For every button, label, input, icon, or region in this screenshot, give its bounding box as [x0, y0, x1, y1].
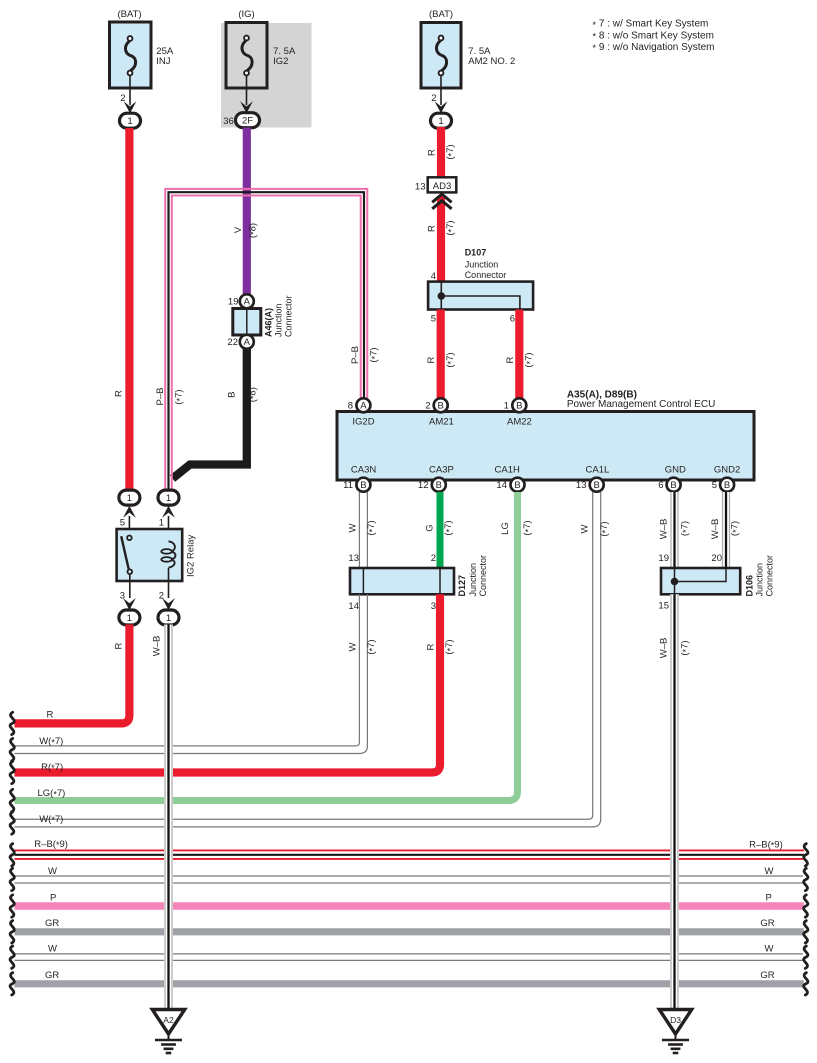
wire W-B from relay pin 2 to ground A2 [164, 625, 173, 1010]
svg-text:W: W [580, 524, 591, 533]
svg-text:5: 5 [712, 480, 717, 491]
svg-text:(*8): (*8) [247, 387, 258, 402]
pin 15 label D106 [658, 601, 669, 612]
svg-text:5: 5 [431, 314, 436, 325]
fuse F2 IG2 label (IG) [238, 9, 254, 20]
wire R from fuse F1 to IG2 relay pin 5 [125, 128, 133, 491]
label (*7) on left pink segment [174, 389, 185, 404]
D107 internal bus [441, 282, 520, 310]
svg-text:A: A [244, 337, 251, 348]
relay switch contact top [127, 536, 132, 541]
svg-text:Junction: Junction [755, 563, 765, 597]
svg-text:V: V [233, 226, 244, 233]
left edge break mark 9 [10, 921, 14, 943]
bus wire GR 2 [15, 980, 804, 987]
ECU pin 8A terminal [356, 398, 370, 412]
pin 2 label D127 [431, 553, 436, 564]
fuse F3 AM2 label (BAT) [429, 9, 453, 20]
label (*7) below D127 R [444, 639, 455, 654]
svg-text:B: B [436, 480, 442, 491]
label (*8) on black wire [247, 387, 258, 402]
svg-text:(*7): (*7) [174, 389, 185, 404]
pin 19 label A46 [228, 297, 239, 308]
svg-text:2F: 2F [242, 116, 253, 127]
fuse F2 value label [273, 46, 296, 67]
svg-text:11: 11 [343, 480, 353, 491]
pin 13 label D127 [348, 553, 359, 564]
fuse F1 value label [156, 46, 174, 67]
svg-text:R(*7): R(*7) [41, 762, 63, 773]
wire R (*7) D107 pin6 to ECU AM22 [515, 310, 523, 399]
label (*8) on purple wire [247, 223, 258, 238]
svg-text:B: B [724, 480, 730, 491]
svg-text:Junction: Junction [468, 563, 478, 597]
pin 5 label relay [120, 518, 125, 529]
svg-text:14: 14 [496, 480, 507, 491]
arrow into relay pin 1 [162, 506, 175, 518]
svg-text:B: B [227, 392, 238, 398]
wire G (*7) from ECU CA3P to D127 pin 2 [437, 492, 444, 568]
pin 3 label D127 [431, 601, 436, 612]
bus label W left [48, 866, 57, 877]
svg-text:19: 19 [658, 553, 669, 564]
ECU pin 5B terminal [720, 478, 734, 492]
right edge break mark 5 [804, 946, 808, 968]
right edge break mark 6 [804, 973, 808, 995]
pin 11 label [343, 480, 353, 491]
junction dot in D107 [438, 292, 446, 300]
svg-text:15: 15 [658, 601, 669, 612]
bus label GR right [760, 918, 774, 929]
connector oval 1 below relay pin 3 [119, 610, 140, 625]
svg-text:R: R [505, 356, 516, 363]
connector oval 2F [236, 113, 260, 128]
bus label LG(*7) left [38, 788, 66, 799]
connector oval 1 below F1 [120, 113, 141, 128]
arrow out of relay pin 2 [162, 598, 175, 610]
fuse F3 value label [468, 46, 515, 67]
svg-text:W–B: W–B [659, 638, 670, 659]
D106 name labels [745, 555, 775, 597]
junction connector A46(A) terminal 19 [240, 294, 254, 308]
wire LG (*7) from ECU CA1H to bus [15, 492, 518, 801]
fuse F3 AM2 box [421, 23, 461, 89]
connector oval 1 below F3 [431, 113, 452, 128]
svg-text:Junction: Junction [274, 303, 284, 337]
label R on AM2 wire upper [427, 149, 438, 156]
svg-text:1: 1 [504, 401, 509, 412]
label (*7) on CA3P wire [443, 520, 454, 535]
ECU title [567, 389, 715, 410]
ECU pin 12B terminal [432, 478, 446, 492]
pin 22 label A46 [227, 337, 238, 348]
fuse F2 IG2 box [226, 23, 267, 89]
arrow terminal fuse F2 [240, 101, 253, 113]
bus label W(*7) 2 left [39, 814, 63, 825]
double chevron below AD3 [432, 194, 451, 209]
wire R (*7) D107 pin5 to ECU AM21 [437, 310, 445, 399]
left edge break mark 3 [10, 761, 14, 783]
svg-text:(*7): (*7) [369, 347, 380, 362]
svg-text:P: P [50, 893, 56, 904]
fuse F1 symbol [125, 36, 135, 75]
svg-text:R: R [426, 643, 437, 650]
svg-text:13: 13 [348, 553, 359, 564]
bus label R(*7) left [41, 762, 63, 773]
svg-text:GR: GR [45, 970, 59, 981]
svg-text:R: R [426, 356, 437, 363]
svg-text:CA1H: CA1H [495, 464, 520, 475]
bus label GR 2 right [760, 970, 774, 981]
bus label R-B(*9) left [34, 839, 68, 850]
wire from fuse F1 pin 2 [129, 75, 131, 105]
svg-text:W(*7): W(*7) [39, 814, 63, 825]
label R on AM2 wire lower [427, 225, 438, 232]
wire W-B (*7) from ECU GND to D106 pin 19 [670, 492, 679, 568]
svg-text:W(*7): W(*7) [39, 736, 63, 747]
svg-text:R: R [114, 642, 125, 649]
svg-text:B: B [516, 401, 522, 412]
label R on AM21 wire [426, 356, 437, 363]
D127 internal wire right [439, 568, 441, 594]
svg-text:CA3N: CA3N [351, 464, 376, 475]
wire R (*7) from fuse F3 to AD3 [437, 127, 445, 179]
relay pin 5 lead [128, 516, 130, 536]
svg-text:GR: GR [760, 918, 774, 929]
wire W (*7) from ECU CA1L to bus [15, 492, 601, 827]
left edge break mark 1 [10, 712, 14, 734]
bus wire W 3 [15, 876, 804, 883]
left edge break mark 8 [10, 895, 14, 917]
svg-text:(*7): (*7) [445, 352, 456, 367]
bus label P right [766, 893, 772, 904]
svg-text:1: 1 [127, 116, 132, 127]
label R on relay output wire [114, 642, 125, 649]
svg-text:(*7): (*7) [522, 520, 533, 535]
label W-B below D106 [659, 638, 670, 659]
pin 3 label relay [120, 591, 125, 602]
right edge break mark 3 [804, 895, 808, 917]
bus wire R-B(*9) [15, 850, 805, 859]
ECU top pin names [352, 417, 531, 428]
left edge break mark 10 [10, 946, 14, 968]
svg-text:IG2: IG2 [273, 56, 288, 67]
svg-text:R: R [47, 710, 54, 721]
svg-text:(BAT): (BAT) [117, 9, 141, 20]
label B on black wire [227, 392, 238, 398]
bus label W right [765, 866, 774, 877]
svg-text:(*7): (*7) [444, 639, 455, 654]
wire from fuse F3 [440, 75, 442, 105]
bus wire P [15, 902, 804, 909]
label G on CA3P wire [425, 524, 436, 531]
power management control ECU box [337, 412, 754, 481]
wire W (*7) from ECU CA3N to D127 pin 13 [359, 492, 367, 568]
svg-text:14: 14 [348, 601, 359, 612]
connector oval 1 below relay pin 2 [158, 610, 179, 625]
A46(A) name labels [264, 295, 294, 337]
svg-text:A: A [244, 297, 251, 308]
connector oval 1 above relay pin 5 [119, 490, 140, 505]
relay coil bottom lead [168, 568, 170, 598]
svg-text:8: 8 [348, 401, 353, 412]
pin 6 label D107 [510, 314, 515, 325]
junction connector A46(A) terminal 22 [240, 335, 254, 349]
svg-text:D3: D3 [670, 1015, 681, 1025]
svg-text:D107: D107 [465, 247, 487, 257]
wire R from relay pin 3 to bus [15, 625, 130, 724]
label (*7) on GND wire [680, 521, 691, 536]
ECU pin 14B terminal [511, 478, 525, 492]
svg-text:(*7): (*7) [366, 639, 377, 654]
pin 2 label [425, 401, 430, 412]
ground A2 [152, 1010, 184, 1054]
svg-text:A: A [360, 401, 367, 412]
label W on CA3N wire [348, 523, 359, 532]
junction connector D106 box [661, 568, 740, 594]
junction connector D127 box [350, 568, 454, 594]
relay switch blade [121, 536, 129, 569]
svg-text:(*7): (*7) [443, 520, 454, 535]
pin 1 label relay [159, 518, 164, 529]
ECU pin 1B terminal [512, 398, 526, 412]
svg-text:36: 36 [223, 116, 234, 127]
svg-text:CA3P: CA3P [429, 464, 454, 475]
svg-text:3: 3 [431, 601, 436, 612]
svg-text:W–B: W–B [710, 519, 721, 540]
svg-text:(*7): (*7) [680, 521, 691, 536]
svg-text:D127: D127 [457, 575, 467, 597]
left edge break mark 6 [10, 844, 14, 866]
svg-text:(*7): (*7) [445, 220, 456, 235]
pin 36 label [223, 116, 234, 127]
svg-text:LG: LG [500, 522, 511, 535]
relay pin 3 lead [129, 574, 131, 599]
svg-text:R: R [427, 225, 438, 232]
left edge break mark 2 [10, 739, 14, 761]
svg-text:AD3: AD3 [433, 181, 451, 192]
svg-text:INJ: INJ [156, 56, 171, 67]
svg-text:1: 1 [127, 613, 132, 624]
connector AD3 box [428, 177, 457, 192]
label (*7) below D106 [680, 640, 691, 655]
wire from fuse F2 [246, 75, 248, 105]
bus label GR left [45, 918, 59, 929]
legend note *9 [592, 42, 714, 54]
svg-text:B: B [670, 480, 676, 491]
relay switch contact bottom [128, 569, 133, 574]
svg-text:1: 1 [166, 493, 171, 504]
svg-text:* 7 : w/ Smart Key System: * 7 : w/ Smart Key System [592, 19, 708, 31]
label P-B on left pink segment [155, 388, 166, 406]
right edge break mark 2 [804, 868, 808, 890]
legend note *7 [592, 19, 708, 31]
bus label GR 2 left [45, 970, 59, 981]
svg-text:20: 20 [711, 553, 722, 564]
svg-text:CA1L: CA1L [586, 464, 610, 475]
svg-text:GND: GND [665, 464, 686, 475]
arrow out of relay pin 3 [123, 598, 136, 610]
arrow terminal fuse F3 [435, 101, 448, 113]
label W-B on GND wire [659, 519, 670, 540]
bus wire GR 1 [15, 928, 804, 935]
svg-text:5: 5 [120, 518, 125, 529]
wire V (*8) from fuse F2 to A46 pin 19 [243, 128, 251, 295]
svg-text:* 8 : w/o Smart Key System: * 8 : w/o Smart Key System [592, 30, 714, 42]
pin 14 label D127 [348, 601, 359, 612]
svg-text:2: 2 [431, 553, 436, 564]
svg-text:R–B(*9): R–B(*9) [34, 839, 68, 850]
fuse F1 25A INJ label (BAT) [117, 9, 141, 20]
label W below D127 [348, 642, 359, 651]
svg-text:Connector: Connector [284, 295, 294, 337]
svg-text:D106: D106 [745, 575, 755, 597]
svg-text:22: 22 [227, 337, 238, 348]
junction connector A46(A) box [233, 309, 261, 336]
label V on purple wire [233, 226, 244, 233]
arrow terminal fuse F1 [124, 101, 137, 113]
svg-text:(*8): (*8) [247, 223, 258, 238]
svg-text:R: R [114, 390, 125, 397]
pin 5 label [712, 480, 717, 491]
svg-text:W: W [48, 866, 57, 877]
bus label W 2 left [48, 944, 57, 955]
pin 13 label [576, 480, 587, 491]
label W on CA1L wire [580, 524, 591, 533]
svg-text:W–B: W–B [152, 636, 163, 657]
label R below D127 [426, 643, 437, 650]
svg-text:P: P [766, 893, 772, 904]
svg-text:G: G [425, 524, 436, 531]
svg-text:W: W [765, 944, 774, 955]
ECU pin 11B terminal [356, 478, 370, 492]
bus label P left [50, 893, 56, 904]
svg-text:IG2 Relay: IG2 Relay [186, 535, 197, 577]
svg-text:A46(A): A46(A) [264, 308, 274, 337]
wire R (*7) from AD3 chevron to D107 pin 4 [437, 196, 445, 283]
svg-text:(*7): (*7) [680, 640, 691, 655]
svg-text:13: 13 [576, 480, 587, 491]
D107 label [465, 247, 507, 279]
label LG on CA1H wire [500, 522, 511, 535]
svg-text:1: 1 [127, 493, 132, 504]
left edge break mark 11 [10, 973, 14, 995]
svg-text:Connector: Connector [478, 555, 488, 597]
svg-text:4: 4 [431, 271, 436, 282]
bus label R-B(*9) right [749, 839, 783, 850]
svg-text:Junction: Junction [465, 259, 499, 269]
wire W (*7) from D127 pin 14 to bus [15, 594, 368, 753]
svg-text:(*7): (*7) [524, 352, 535, 367]
svg-text:B: B [438, 401, 444, 412]
relay coil [161, 541, 175, 567]
wire P-B (*7) from relay pin 1 to ECU IG2D [165, 189, 367, 491]
pin 2 label of fuse F3 [431, 93, 436, 104]
ECU bottom pin names [351, 464, 740, 475]
wire W-B (*7) from ECU GND2 to D106 pin 20 [722, 492, 731, 568]
svg-text:Power Management Control ECU: Power Management Control ECU [567, 399, 715, 410]
svg-text:2: 2 [425, 401, 430, 412]
svg-text:(*7): (*7) [730, 521, 741, 536]
pin 14 label [496, 480, 507, 491]
bus wire W 4 [15, 954, 804, 961]
svg-text:AM2 NO. 2: AM2 NO. 2 [468, 56, 515, 67]
junction connector D107 box [428, 282, 533, 310]
label (*7) on CA1H wire [522, 520, 533, 535]
svg-text:P–B: P–B [350, 346, 361, 364]
svg-text:W: W [765, 866, 774, 877]
svg-text:19: 19 [228, 297, 239, 308]
wire W-B (*7) from D106 pin 15 to ground D3 [670, 594, 679, 1009]
label (*7) on right pink segment [369, 347, 380, 362]
left edge break mark 5 [10, 812, 14, 834]
label R on AM22 wire [505, 356, 516, 363]
gray panel behind IG2 fuse [221, 23, 312, 128]
svg-text:AM21: AM21 [429, 417, 454, 428]
svg-text:(IG): (IG) [238, 9, 254, 20]
svg-text:6: 6 [658, 480, 663, 491]
svg-text:R: R [427, 149, 438, 156]
legend note *8 [592, 30, 714, 42]
arrow into relay pin 5 [123, 506, 136, 518]
svg-text:(*7): (*7) [445, 144, 456, 159]
pin 4 label D107 [431, 271, 436, 282]
bus label R left [47, 710, 54, 721]
svg-text:Connector: Connector [765, 555, 775, 597]
svg-text:P–B: P–B [155, 388, 166, 406]
pin 12 label [418, 480, 429, 491]
fuse F2 symbol [242, 36, 252, 76]
svg-text:W–B: W–B [659, 519, 670, 540]
pin 5 label D107 [431, 314, 436, 325]
svg-text:LG(*7): LG(*7) [38, 788, 66, 799]
ECU pin 2B terminal [434, 398, 448, 412]
svg-text:(BAT): (BAT) [429, 9, 453, 20]
svg-text:1: 1 [166, 613, 171, 624]
pin 1 label [504, 401, 509, 412]
pin 19 label D106 [658, 553, 669, 564]
label (*7) below D127 W [366, 639, 377, 654]
svg-text:13: 13 [415, 182, 426, 193]
IG2 Relay name label [186, 535, 197, 577]
relay pin 1 lead [168, 516, 170, 542]
pin 20 label D106 [711, 553, 722, 564]
right edge break mark 4 [804, 921, 808, 943]
svg-text:B: B [514, 480, 520, 491]
pin 6 label [658, 480, 663, 491]
IG2 relay box [117, 529, 183, 581]
bus label W(*7) left [39, 736, 63, 747]
label R on F1 wire [114, 390, 125, 397]
ground D3 [659, 1010, 691, 1054]
pin 2 label relay [159, 591, 164, 602]
svg-text:IG2D: IG2D [352, 417, 374, 428]
label (*7) on AM2 wire upper [445, 144, 456, 159]
label (*7) on CA3N wire [366, 520, 377, 535]
wire R (*7) from D127 pin 3 to bus [15, 594, 441, 772]
svg-text:W: W [348, 642, 359, 651]
D127 internal wire left [362, 568, 364, 594]
connector oval 1 above relay pin 1 [158, 490, 179, 505]
svg-text:B: B [594, 480, 600, 491]
bus label W 2 right [765, 944, 774, 955]
svg-text:Connector: Connector [465, 270, 507, 280]
ECU pin 6B terminal [667, 478, 681, 492]
label (*7) on AM21 wire [445, 352, 456, 367]
label P-B on right pink segment [350, 346, 361, 364]
svg-text:* 9 : w/o Navigation System: * 9 : w/o Navigation System [592, 42, 714, 54]
svg-text:W: W [348, 523, 359, 532]
